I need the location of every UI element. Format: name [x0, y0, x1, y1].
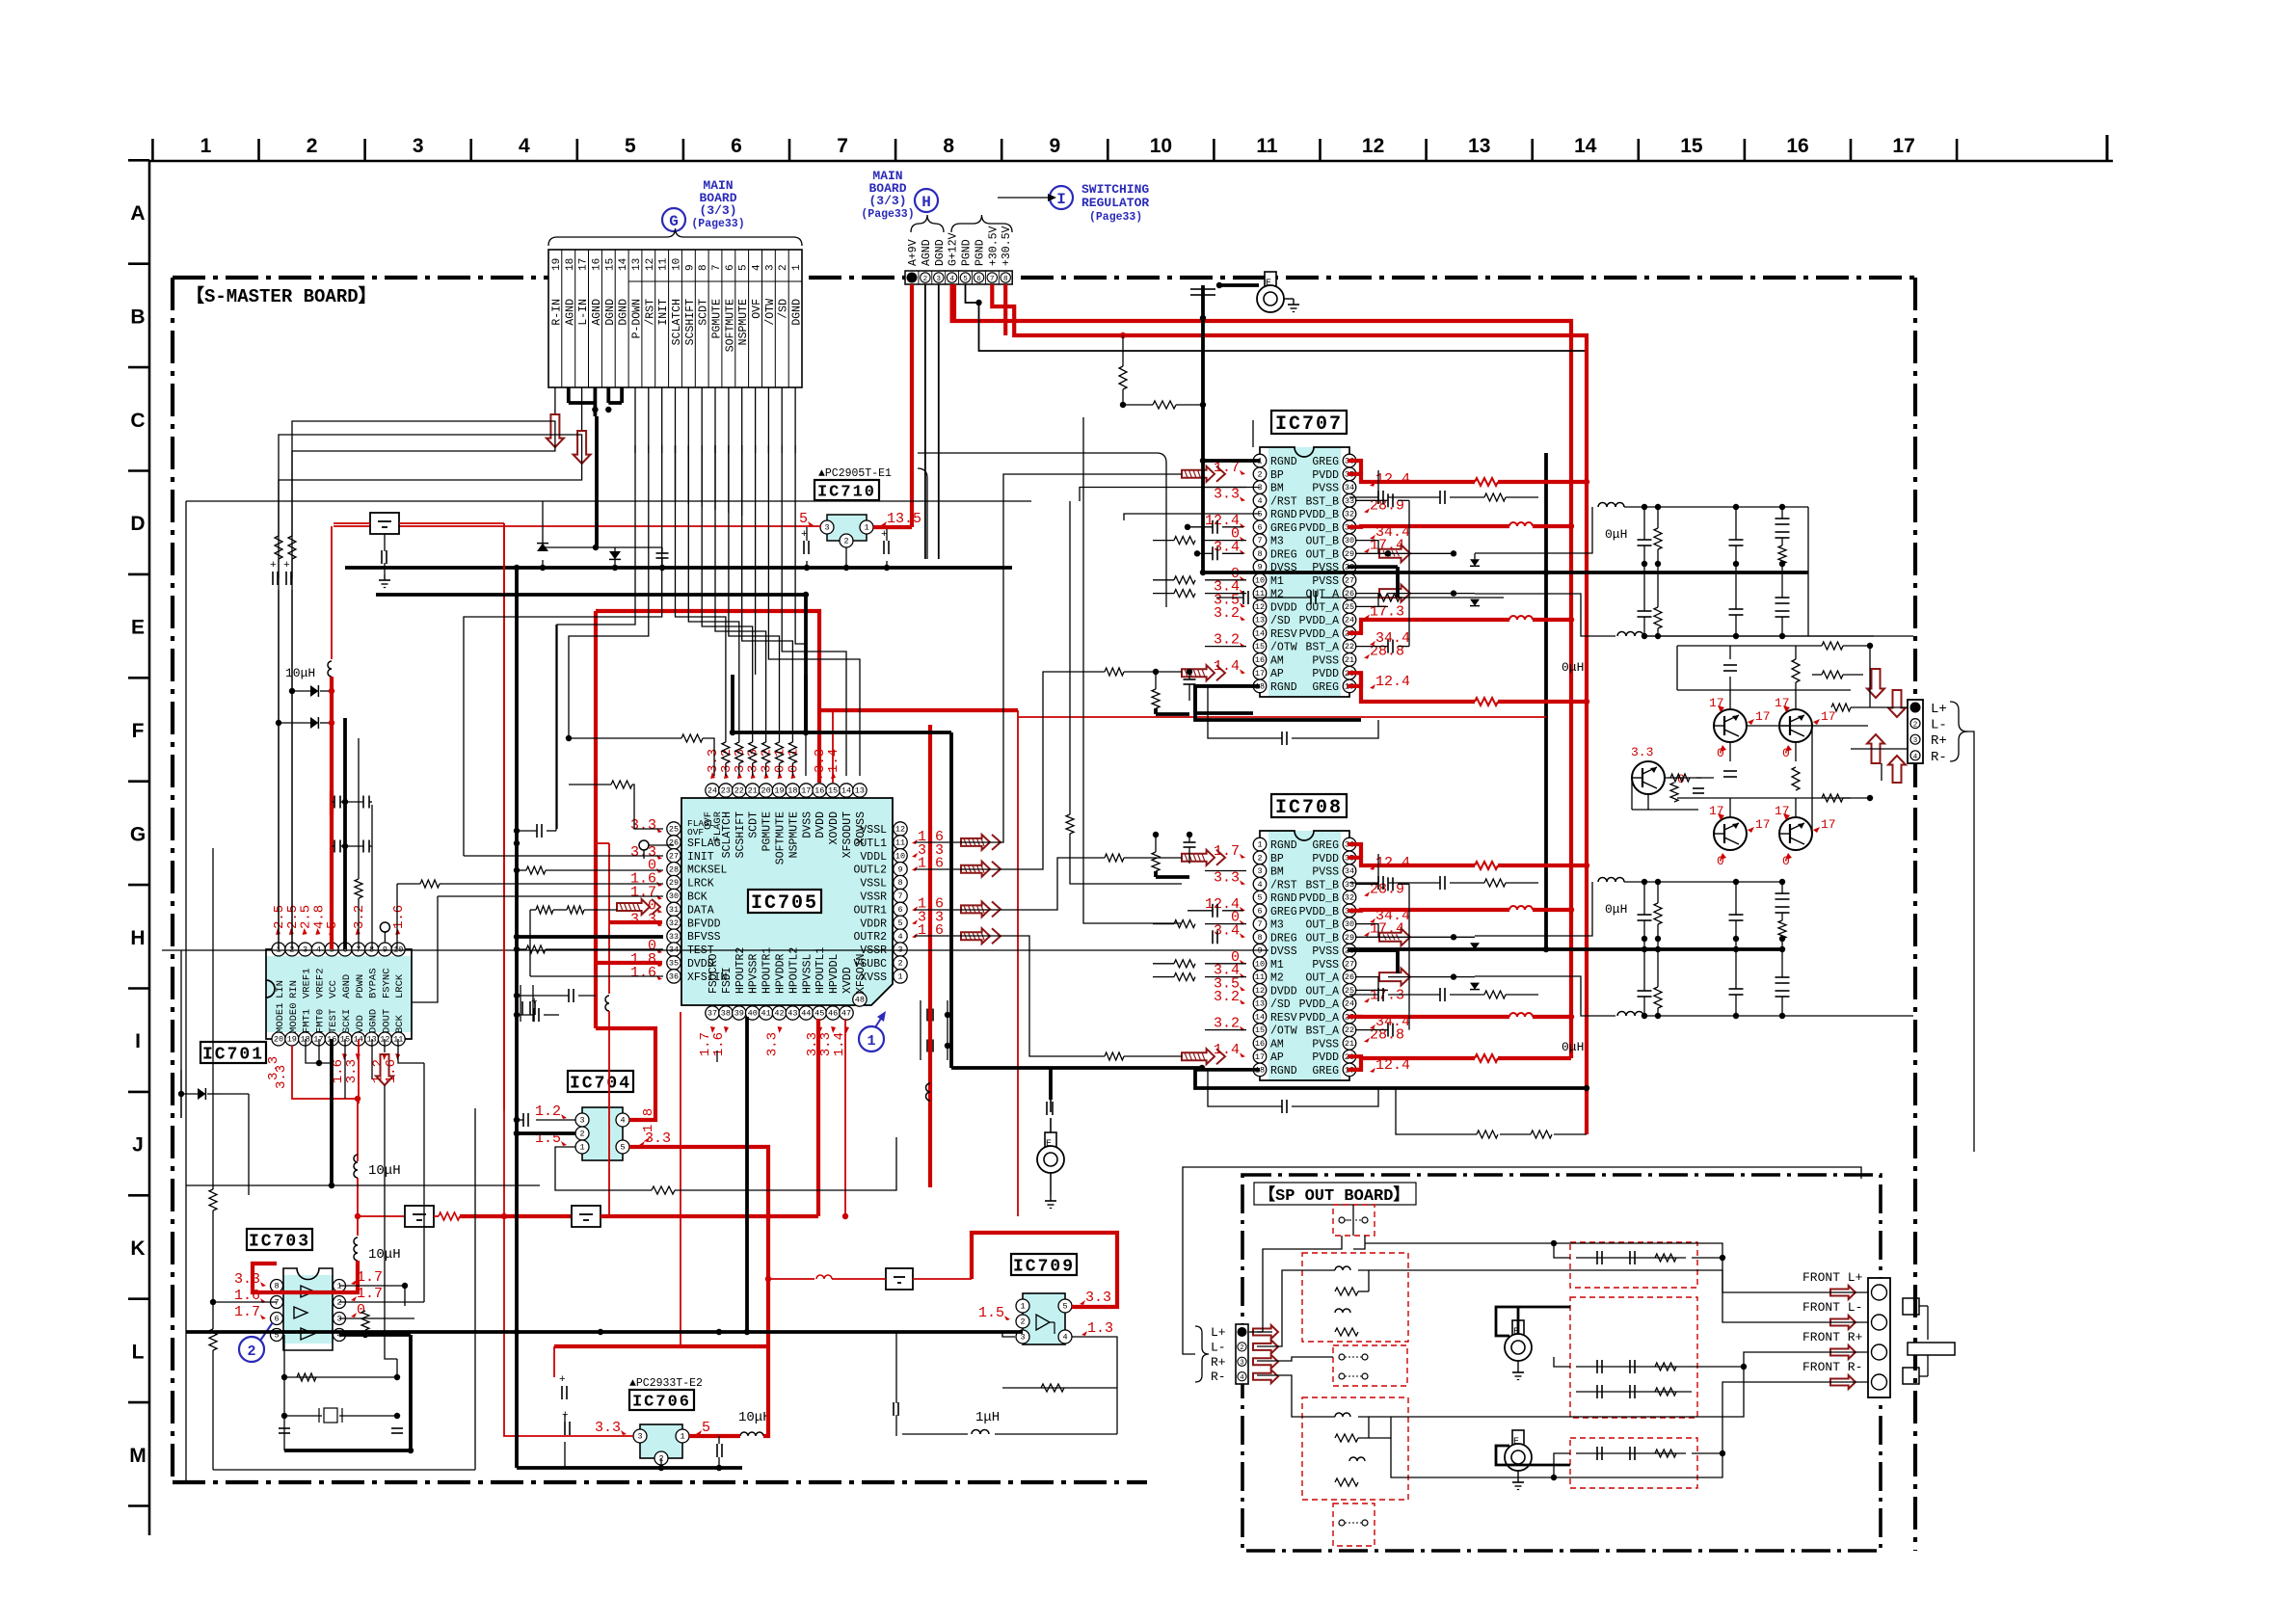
svg-text:BST_B: BST_B	[1305, 879, 1339, 891]
svg-text:I: I	[1056, 191, 1066, 208]
svg-text:MODE1: MODE1	[275, 1002, 286, 1033]
svg-text:R-: R-	[1931, 750, 1947, 765]
wires below connector G	[554, 387, 556, 414]
wire +30.5V red long	[992, 284, 1587, 1134]
svg-text:3.3: 3.3	[1631, 745, 1653, 759]
svg-text:46: 46	[828, 1009, 838, 1019]
emitter resistor rows to connector	[1747, 725, 1868, 727]
E ground rings SP OUT	[1512, 1320, 1524, 1336]
OUT_B/OUT_A stubs 707	[1355, 541, 1378, 554]
svg-text:16: 16	[1786, 135, 1808, 157]
connector CN H power	[905, 271, 1012, 284]
R-IN L-IN long routes to IC701	[292, 421, 555, 536]
black thick row E left	[345, 566, 1012, 570]
transistor Q704	[1779, 817, 1812, 850]
svg-text:7: 7	[990, 276, 995, 283]
svg-text:OUTR1: OUTR1	[853, 904, 887, 917]
svg-text:RGND: RGND	[1270, 681, 1297, 694]
svg-text:K: K	[130, 1237, 145, 1260]
svg-text:AP: AP	[1270, 1051, 1284, 1064]
svg-text:3.3: 3.3	[344, 1059, 360, 1083]
svg-text:SCDT: SCDT	[698, 299, 710, 326]
svg-text:5: 5	[702, 1420, 710, 1436]
svg-text:20: 20	[761, 786, 770, 796]
svg-text:AGND: AGND	[921, 239, 933, 266]
svg-text:17: 17	[1821, 817, 1836, 832]
svg-text:3.2: 3.2	[352, 905, 367, 929]
svg-text:PVSS: PVSS	[1312, 945, 1339, 958]
svg-text:10: 10	[1255, 575, 1265, 585]
black thick vertical x1248	[1201, 318, 1205, 420]
svg-text:33: 33	[669, 932, 679, 942]
svg-text:HPVSSR: HPVSSR	[748, 953, 761, 994]
svg-text:11: 11	[1256, 135, 1278, 157]
svg-text:5: 5	[738, 264, 750, 271]
svg-text:(Page33): (Page33)	[1089, 211, 1142, 224]
caps left of IC708	[1212, 904, 1214, 918]
svg-text:PVDD_A: PVDD_A	[1299, 615, 1340, 627]
svg-text:14: 14	[1255, 1013, 1265, 1023]
svg-text:12: 12	[895, 825, 905, 835]
svg-text:5: 5	[897, 918, 902, 928]
svg-text:PVSS: PVSS	[1312, 866, 1339, 879]
svg-text:OUT_B: OUT_B	[1305, 536, 1339, 548]
svg-text:AM: AM	[1270, 654, 1284, 667]
svg-text:REGULATOR: REGULATOR	[1081, 196, 1149, 210]
svg-text:13: 13	[1468, 135, 1490, 157]
connector speaker out L/R	[1908, 700, 1923, 763]
svg-text:BP: BP	[1270, 469, 1284, 482]
svg-text:L-IN: L-IN	[577, 299, 590, 326]
red taps to IC708 power pins	[1348, 858, 1475, 865]
transistor Q702	[1779, 709, 1812, 742]
svg-text:J: J	[132, 1134, 144, 1157]
left col wires from G R-IN/L-IN	[292, 445, 555, 949]
IC705 bottom thick black	[745, 1017, 749, 1332]
svg-text:1.5: 1.5	[978, 1305, 1004, 1321]
svg-text:【SP OUT BOARD】: 【SP OUT BOARD】	[1259, 1184, 1409, 1206]
svg-text:8: 8	[1257, 549, 1262, 559]
red rail col5 down to IC706 input	[504, 523, 633, 1436]
mid row J caps x970	[926, 1009, 928, 1022]
svg-text:PVSS: PVSS	[1312, 483, 1339, 495]
svg-text:10: 10	[1150, 135, 1172, 157]
svg-text:DOUT: DOUT	[381, 1009, 392, 1033]
black right vertical x987 to FET	[949, 732, 953, 1068]
svg-text:12.4: 12.4	[1375, 855, 1410, 871]
svg-text:41: 41	[761, 1009, 770, 1019]
relay contact block RY top	[1333, 1205, 1375, 1236]
svg-text:R+: R+	[1211, 1355, 1226, 1370]
DATA line with resistors	[530, 909, 536, 911]
svg-text:BFVDD: BFVDD	[687, 918, 721, 930]
svg-text:24: 24	[1345, 616, 1354, 625]
svg-text:IC708: IC708	[1275, 797, 1343, 819]
to L connector wires	[1851, 706, 1908, 708]
svg-text:OUTL1: OUTL1	[853, 838, 887, 850]
svg-text:RGND: RGND	[1270, 892, 1297, 905]
svg-text:SCSHIFT: SCSHIFT	[734, 811, 747, 858]
svg-text:30: 30	[1345, 536, 1354, 545]
svg-text:FSYNC: FSYNC	[381, 968, 392, 998]
svg-text:R+: R+	[1931, 733, 1947, 749]
comparator IC709	[1011, 1254, 1077, 1275]
regulator IC704	[568, 1071, 633, 1092]
svg-text:4: 4	[1257, 496, 1262, 506]
svg-text:BP: BP	[1270, 853, 1284, 865]
IC701 DOUT long drop with arrow	[384, 1039, 386, 1052]
svg-text:DGND: DGND	[791, 299, 804, 326]
svg-text:2: 2	[843, 537, 848, 546]
svg-text:PVDD_A: PVDD_A	[1299, 628, 1340, 641]
svg-text:11: 11	[658, 257, 670, 271]
svg-text:1: 1	[1020, 1302, 1025, 1312]
svg-text:SCLATCH: SCLATCH	[671, 299, 683, 345]
svg-text:M2: M2	[1270, 589, 1284, 601]
svg-text:7: 7	[1257, 919, 1262, 929]
IC707 pin5/ pin18 frame	[1124, 514, 1260, 520]
right-side caps/bst wiring IC707	[1355, 470, 1378, 500]
svg-text:6: 6	[731, 135, 742, 157]
transistor Q701	[1714, 709, 1747, 742]
svg-text:IC710: IC710	[817, 484, 876, 502]
svg-text:DVDD: DVDD	[1270, 601, 1297, 614]
svg-text:XOVDD: XOVDD	[828, 811, 841, 845]
svg-text:2: 2	[1913, 722, 1918, 730]
crystal cluster	[283, 1335, 285, 1450]
svg-text:NSPMUTE: NSPMUTE	[788, 811, 800, 858]
svg-text:E: E	[1046, 1139, 1052, 1150]
svg-text:B: B	[130, 306, 145, 328]
pin9 open circle	[380, 922, 389, 932]
svg-text:9: 9	[684, 264, 696, 271]
IC705 pin24 OVF feed	[569, 737, 681, 739]
BFVSS thick and TEST	[517, 935, 663, 939]
svg-text:1.7: 1.7	[357, 1286, 383, 1302]
svg-text:GREG: GREG	[1312, 681, 1339, 694]
svg-text:SCDT: SCDT	[748, 811, 761, 838]
svg-text:IC706: IC706	[632, 1394, 691, 1412]
svg-text:4: 4	[897, 932, 902, 942]
svg-text:1: 1	[864, 523, 868, 533]
svg-text:BST_B: BST_B	[1305, 495, 1339, 508]
resistors left rows 707	[1174, 537, 1195, 545]
red thin to ferrite K row	[768, 1278, 814, 1280]
svg-text:(Page33): (Page33)	[861, 208, 914, 221]
svg-text:39: 39	[734, 1009, 744, 1019]
svg-text:IC707: IC707	[1275, 413, 1343, 436]
svg-text:1.2: 1.2	[535, 1104, 561, 1120]
svg-text:25: 25	[669, 825, 679, 835]
op-amp IC703	[283, 1275, 333, 1344]
svg-text:17: 17	[1821, 709, 1836, 724]
DATA signal arrow left	[617, 899, 650, 915]
svg-text:18: 18	[565, 258, 576, 271]
svg-text:8: 8	[1003, 276, 1008, 283]
svg-text:【S-MASTER BOARD】: 【S-MASTER BOARD】	[186, 284, 377, 307]
svg-text:2: 2	[1240, 1344, 1243, 1352]
svg-text:27: 27	[1345, 959, 1354, 969]
svg-text:3.3: 3.3	[1085, 1290, 1111, 1306]
same for IC708	[1355, 854, 1378, 884]
svg-text:PVSS: PVSS	[1312, 1038, 1339, 1051]
left thin enclosure verticals	[212, 848, 214, 1189]
svg-text:4: 4	[1257, 880, 1262, 890]
svg-text:L-: L-	[1211, 1340, 1226, 1354]
svg-text:SOFTMUTE: SOFTMUTE	[775, 811, 788, 865]
svg-text:+: +	[283, 560, 290, 572]
IC703 surroundings	[209, 1189, 217, 1211]
signal arrows at IC705 outputs	[961, 835, 990, 850]
red IC704 pin5 out	[629, 1147, 768, 1346]
svg-text:HPVDDR: HPVDDR	[775, 953, 788, 994]
cable line to input	[1183, 1167, 1861, 1354]
svg-text:M1: M1	[1270, 575, 1284, 588]
IC707 pin1 top-left wire	[1203, 459, 1260, 463]
svg-text:RGND: RGND	[1270, 456, 1297, 468]
svg-text:PVDD_B: PVDD_B	[1299, 906, 1340, 918]
caps above IC701	[343, 718, 347, 949]
svg-text:3.3: 3.3	[1214, 869, 1240, 886]
svg-text:▲PC2933T-E2: ▲PC2933T-E2	[629, 1377, 703, 1390]
svg-text:2: 2	[923, 276, 928, 283]
svg-text:12.4: 12.4	[1375, 674, 1410, 690]
svg-text:5: 5	[625, 135, 636, 157]
black long row H mid	[162, 949, 1268, 951]
svg-text:L+: L+	[1931, 702, 1947, 717]
svg-text:8: 8	[1257, 933, 1262, 943]
svg-text:3: 3	[937, 276, 942, 283]
FRONT output labels+connector	[1868, 1278, 1890, 1397]
coil near x965	[926, 1083, 931, 1101]
svg-text:3.3: 3.3	[595, 1420, 621, 1436]
black pvss IC708	[1348, 948, 1398, 952]
relay contact mid	[1333, 1345, 1407, 1386]
svg-text:30: 30	[669, 891, 679, 901]
E ring taps	[1496, 1307, 1570, 1336]
svg-text:NSPMUTE: NSPMUTE	[737, 299, 750, 345]
long verticals between ICs	[1069, 501, 1071, 814]
svg-text:/RST: /RST	[1270, 495, 1297, 508]
svg-text:VDDL: VDDL	[860, 851, 887, 864]
svg-text:29: 29	[669, 878, 679, 888]
svg-text:8: 8	[943, 135, 954, 157]
svg-text:44: 44	[801, 1009, 811, 1019]
rounded corner wires centre	[918, 453, 1166, 607]
IC705 left horizontals	[569, 784, 611, 785]
resistors left rows 708	[1174, 920, 1195, 928]
fet pair block	[1050, 1100, 1052, 1112]
pull networks at AP/BP pins	[1155, 672, 1157, 689]
svg-text:E: E	[131, 617, 145, 639]
svg-text:3.2: 3.2	[1214, 989, 1240, 1005]
IC704 wires	[536, 1119, 575, 1121]
svg-text:IC701: IC701	[202, 1046, 264, 1065]
svg-text:36: 36	[669, 972, 679, 982]
svg-text:INIT: INIT	[687, 851, 714, 864]
svg-text:1.3: 1.3	[1087, 1320, 1113, 1337]
svg-text:PVDD_B: PVDD_B	[1299, 522, 1340, 535]
red loop over IC705	[596, 611, 819, 783]
svg-text:IC703: IC703	[249, 1233, 310, 1252]
red thin branch x632	[596, 842, 609, 844]
svg-text:16: 16	[1255, 655, 1265, 665]
caps left of IC707	[1212, 520, 1214, 534]
svg-text:4: 4	[949, 276, 954, 283]
node 2 marker	[239, 1337, 264, 1362]
IC703 right wires	[339, 1286, 405, 1306]
black FET J-row	[951, 1066, 1202, 1070]
svg-text:17: 17	[1255, 1052, 1265, 1062]
svg-text:19: 19	[287, 1035, 297, 1045]
red 5V rail IC710 pin3 to IC701 VCC	[334, 525, 821, 527]
svg-text:E: E	[1513, 1437, 1519, 1448]
IC707 OUT arrows	[1379, 545, 1410, 562]
svg-text:/SD: /SD	[1270, 615, 1291, 627]
svg-text:DGND: DGND	[368, 1009, 380, 1033]
red DVDD pin35 feed	[596, 961, 662, 965]
svg-text:22: 22	[1345, 642, 1354, 652]
line below IC708 y1177	[1554, 1133, 1587, 1135]
svg-text:27: 27	[1345, 575, 1354, 585]
svg-text:7: 7	[711, 264, 723, 271]
svg-text:PVDD_A: PVDD_A	[1299, 998, 1340, 1011]
svg-text:33: 33	[1345, 880, 1354, 890]
relay contact bottom	[1333, 1503, 1375, 1546]
svg-text:PGMUTE: PGMUTE	[711, 299, 724, 339]
svg-text:16: 16	[814, 786, 824, 796]
svg-text:AM: AM	[1270, 1038, 1284, 1051]
svg-text:/RST: /RST	[1270, 879, 1297, 891]
svg-text:E: E	[1266, 279, 1271, 289]
svg-text:32: 32	[1345, 510, 1354, 519]
svg-text:5: 5	[620, 1143, 625, 1153]
svg-text:BM: BM	[1270, 866, 1284, 879]
class-D amp IC707 DIP36	[1268, 447, 1341, 697]
svg-text:12: 12	[645, 258, 656, 271]
svg-text:R-: R-	[1211, 1370, 1226, 1384]
red IC704 pin4 feed from x618	[596, 1028, 655, 1120]
svg-text:10μH: 10μH	[738, 1410, 771, 1425]
diode cluster row D	[543, 546, 662, 548]
svg-text:PVDD_A: PVDD_A	[1299, 1012, 1340, 1024]
svg-text:C: C	[130, 410, 145, 432]
svg-text:FRONT R-: FRONT R-	[1802, 1360, 1862, 1374]
svg-text:13: 13	[1255, 616, 1265, 625]
svg-text:DVDD: DVDD	[1270, 985, 1297, 998]
svg-text:9: 9	[1049, 135, 1060, 157]
svg-text:8: 8	[274, 1282, 279, 1291]
caps on x536 lower	[536, 824, 538, 838]
wire AGND	[924, 284, 926, 559]
svg-text:24: 24	[707, 786, 717, 796]
IC707 BP/AP input arrows	[1182, 466, 1215, 482]
svg-text:16: 16	[591, 258, 602, 271]
svg-text:VREF2: VREF2	[314, 968, 326, 998]
G comb others down	[755, 445, 757, 675]
red IC705 left BFVDD pin32	[609, 920, 662, 924]
svg-text:LRCK: LRCK	[687, 878, 714, 891]
svg-text:GREG: GREG	[1312, 456, 1339, 468]
svg-text:3.3: 3.3	[1214, 486, 1240, 502]
svg-text:0μH: 0μH	[1562, 1040, 1584, 1054]
diodes right of IC707	[1470, 559, 1480, 566]
left stubs 708	[1205, 870, 1246, 872]
black thick G-connector ground drop	[595, 416, 599, 547]
svg-text:G: G	[130, 823, 146, 845]
red G+12V elbow to v-rail	[952, 284, 956, 321]
black IC705 top supply	[804, 675, 808, 732]
IC709 bottom wires	[1002, 1332, 1015, 1337]
svg-text:15: 15	[1680, 135, 1703, 157]
svg-text:/OTW: /OTW	[1270, 1025, 1297, 1038]
svg-text:PGND: PGND	[961, 239, 974, 266]
svg-text:HPOUTL2: HPOUTL2	[788, 947, 800, 994]
svg-text:OUT_B: OUT_B	[1305, 932, 1339, 945]
svg-text:17: 17	[801, 786, 811, 796]
wire PGND6 long black	[979, 303, 1588, 351]
IC701 bottom pin wires	[306, 1039, 332, 1063]
svg-text:18: 18	[788, 786, 797, 796]
svg-text:26: 26	[669, 838, 679, 848]
IC705 out routes to IC707/708	[915, 474, 1182, 842]
GREG red elbows IC707/708	[1348, 461, 1361, 474]
red taps to IC707 power pins	[1348, 474, 1475, 482]
svg-text:15: 15	[828, 786, 838, 796]
svg-text:11: 11	[1255, 972, 1265, 982]
svg-text:6: 6	[976, 276, 981, 283]
G comb to IC705 top pins	[676, 445, 726, 742]
svg-text:0μH: 0μH	[1605, 527, 1627, 542]
svg-text:2: 2	[307, 135, 318, 157]
svg-text:SCKI: SCKI	[341, 1009, 353, 1033]
svg-text:DVSS: DVSS	[801, 811, 814, 838]
svg-text:1: 1	[200, 135, 212, 157]
svg-text:AGND: AGND	[341, 974, 353, 998]
svg-text:4: 4	[1062, 1333, 1067, 1343]
svg-text:15: 15	[1255, 1025, 1265, 1035]
svg-text:10μH: 10μH	[285, 666, 315, 680]
svg-text:20: 20	[274, 1035, 283, 1045]
svg-text:3: 3	[1020, 1333, 1025, 1343]
svg-text:FSOCKO: FSOCKO	[707, 953, 720, 994]
svg-text:+: +	[559, 1374, 566, 1386]
svg-text:5: 5	[963, 276, 968, 283]
svg-text:13.5: 13.5	[887, 511, 921, 527]
note I switching regulator	[1050, 186, 1073, 209]
svg-text:BST_A: BST_A	[1305, 642, 1339, 654]
E ring mid board	[1045, 1132, 1056, 1148]
svg-text:10: 10	[1255, 959, 1265, 969]
svg-text:OVF: OVF	[751, 299, 763, 319]
ferrite row D left	[370, 513, 399, 534]
ruler top	[149, 160, 2113, 163]
svg-text:3.3: 3.3	[274, 1065, 289, 1089]
svg-text:VSSR: VSSR	[860, 891, 887, 904]
svg-text:1: 1	[897, 972, 902, 982]
lower pair net	[1729, 798, 1731, 817]
svg-text:SCSHIFT: SCSHIFT	[684, 299, 697, 345]
svg-text:9: 9	[1257, 946, 1262, 956]
svg-text:2: 2	[579, 1130, 584, 1139]
class-D amp IC708 DIP36	[1268, 831, 1341, 1080]
svg-text:OUTL2: OUTL2	[853, 865, 887, 877]
svg-text:1.4: 1.4	[826, 749, 841, 773]
transistor Q703	[1714, 817, 1747, 850]
svg-text:M1: M1	[1270, 959, 1284, 971]
caps under IC705 bottom	[716, 1051, 718, 1062]
svg-text:PVDD_B: PVDD_B	[1299, 892, 1340, 905]
